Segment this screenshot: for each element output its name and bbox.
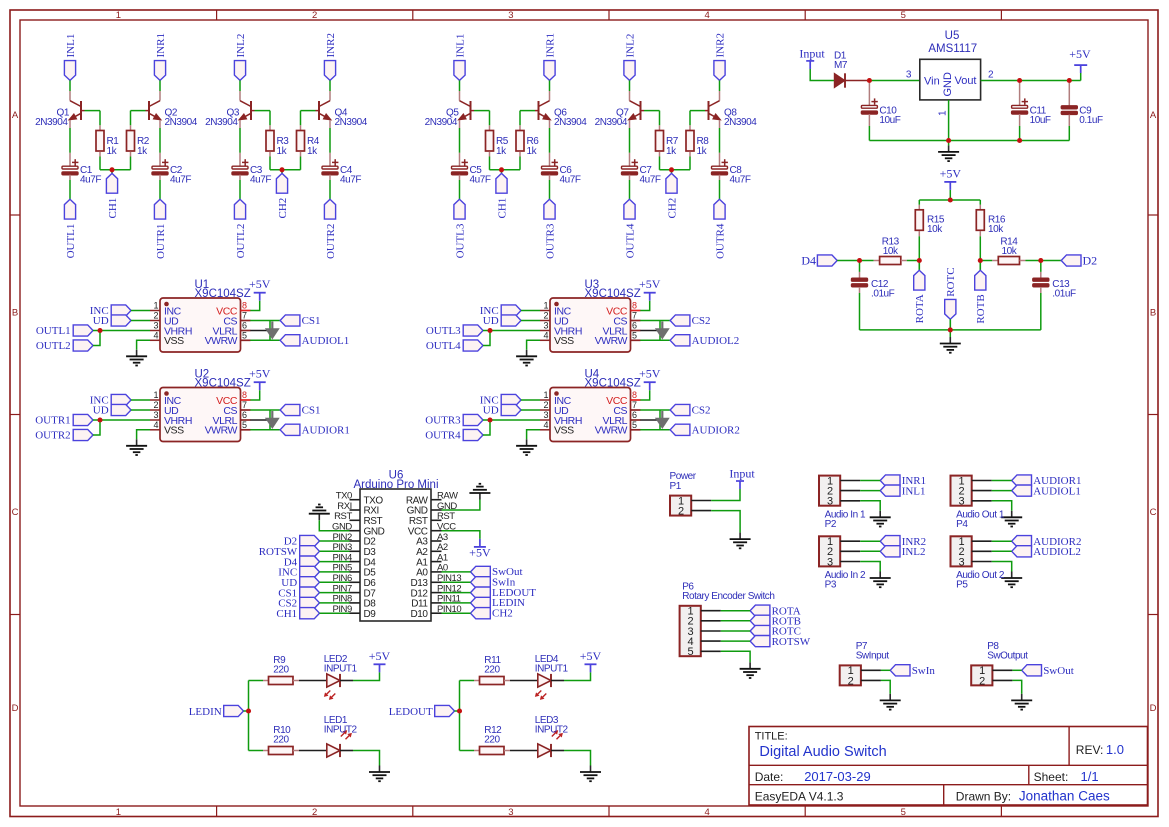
svg-text:P5: P5 [956,580,968,591]
svg-text:ROTSW: ROTSW [772,636,811,648]
wire [640,419,660,421]
svg-text:RST: RST [364,516,383,527]
wire [881,669,890,671]
wire [837,260,859,262]
ground [730,533,751,549]
wire [640,429,670,431]
ground [1001,572,1022,588]
svg-text:OUTL2: OUTL2 [36,340,71,352]
wire [131,320,150,322]
svg-text:OUTL4: OUTL4 [624,223,636,258]
wire [69,180,71,199]
svg-text:OUTL1: OUTL1 [65,224,77,259]
title block [749,727,1148,806]
svg-text:Vin: Vin [924,76,940,88]
net flag CH1 [276,608,319,620]
wire [1080,73,1082,81]
wire [490,169,521,171]
wire [521,399,540,401]
wire [474,110,490,112]
svg-text:CH2: CH2 [666,198,678,219]
svg-text:2: 2 [979,675,985,687]
wire [549,80,551,91]
wire [329,80,331,91]
svg-text:3: 3 [958,556,964,568]
svg-text:INR2: INR2 [714,33,726,57]
svg-text:3: 3 [906,70,912,81]
svg-text:6: 6 [242,321,247,331]
svg-text:+5V: +5V [940,166,962,180]
svg-text:10k: 10k [1002,246,1018,257]
svg-text:7: 7 [242,400,247,410]
net flag INL1 [880,485,925,497]
net flag D2 [284,535,320,547]
net flag ROTA [750,605,801,617]
net flag OUTL2 [234,199,246,258]
diode D1 [834,51,869,88]
svg-text:OUTR3: OUTR3 [544,223,556,259]
svg-text:1k: 1k [107,146,118,157]
ground [880,694,901,710]
net flag UD [483,404,521,416]
svg-text:Input: Input [729,467,755,481]
wire [137,340,150,350]
svg-text:OUTR1: OUTR1 [155,224,167,259]
net flag CS2 [278,597,319,609]
svg-text:INPUT2: INPUT2 [324,724,358,735]
transistor Q2 [146,91,198,128]
svg-text:4: 4 [543,420,548,430]
ground [940,337,961,353]
svg-text:ROTA: ROTA [914,294,926,323]
svg-text:D5: D5 [364,568,377,579]
svg-text:RST: RST [409,516,428,527]
svg-text:1: 1 [153,301,158,311]
wire [981,80,1081,82]
wire [689,157,691,170]
svg-text:REV:: REV: [1076,743,1104,757]
resistor R10 [263,725,299,755]
svg-text:2: 2 [153,400,158,410]
net flag INL1 [454,34,466,81]
wire [460,750,475,752]
wire [719,80,721,91]
svg-text:4: 4 [704,807,709,818]
svg-text:+5V: +5V [580,649,602,663]
net flag INR1 [880,475,926,487]
svg-text:1: 1 [543,301,548,311]
capacitor C11 [1012,83,1051,126]
net flag UD [93,315,131,327]
net flag INR2 [880,536,926,548]
wire [442,500,480,511]
wire [860,490,880,492]
svg-text:D10: D10 [411,609,429,620]
svg-text:6: 6 [632,410,637,420]
wire [340,680,353,682]
svg-text:AUDIOL2: AUDIOL2 [692,335,740,347]
wire [660,169,691,171]
svg-text:INL1: INL1 [454,34,466,58]
wire [992,501,1012,511]
svg-text:UD: UD [483,405,499,417]
svg-text:1: 1 [153,390,158,400]
svg-text:D9: D9 [364,609,377,620]
junction [1017,78,1022,83]
svg-text:LEDOUT: LEDOUT [389,706,433,718]
svg-text:+5V: +5V [249,277,271,291]
capacitor C13 [1033,261,1076,300]
resistor R7 [656,125,679,157]
svg-text:OUTR1: OUTR1 [35,415,70,427]
svg-text:2N3904: 2N3904 [425,117,458,128]
svg-text:10k: 10k [883,246,899,257]
transistor Q4 [316,91,368,128]
svg-text:P3: P3 [825,580,837,591]
wire [640,339,670,341]
wire [250,419,270,421]
svg-text:INL2: INL2 [235,34,247,58]
svg-text:2N3904: 2N3904 [335,117,368,128]
svg-text:OUTL1: OUTL1 [36,325,71,337]
svg-text:X9C104SZ: X9C104SZ [195,288,251,300]
wire [868,126,870,141]
svg-text:220: 220 [273,664,289,675]
net flag LEDOUT [389,705,455,718]
wire [521,320,540,322]
wire [442,571,471,573]
svg-text:CS1: CS1 [302,315,321,327]
svg-text:CH2: CH2 [277,198,289,219]
net flag INC [480,394,521,406]
net flag OUTR2 [324,199,336,259]
svg-text:A: A [1150,110,1157,121]
net flag UD [483,315,521,327]
wire [459,180,461,199]
svg-text:D: D [12,703,19,714]
capacitor C2 [152,153,191,186]
wire [131,399,150,401]
net flag CH2 [471,607,513,619]
junction [109,167,114,172]
wire [250,409,280,411]
svg-text:7: 7 [632,311,637,321]
wire [629,80,631,91]
resistor R8 [686,125,709,157]
net flag UD [281,577,319,589]
net flag OUTR3 [544,199,556,259]
ground [126,439,147,455]
connector P2 [819,475,860,507]
wire [719,128,721,153]
junction [1017,138,1022,143]
wire [159,80,161,91]
resistor R16 [976,200,1006,236]
wire [721,620,750,622]
svg-text:SwOutput: SwOutput [987,651,1028,662]
connector P3 [819,536,860,568]
ground [309,505,330,521]
resistor R15 [915,200,945,236]
wire [131,110,146,112]
svg-text:4u7F: 4u7F [560,174,581,185]
svg-text:3: 3 [508,807,513,818]
wire [860,480,880,482]
junction [279,167,284,172]
svg-text:+5V: +5V [639,367,661,381]
power +5V [580,649,602,673]
junction [978,258,983,263]
wire [869,80,919,82]
net flag INR2 [324,33,336,80]
transistor Q5 [425,91,474,128]
wire [510,750,538,752]
svg-text:UD: UD [93,315,109,327]
svg-text:OUTL3: OUTL3 [426,325,461,337]
IC U5 [920,30,981,100]
transistor Q7 [595,91,644,128]
wire [93,419,150,421]
svg-text:4u7F: 4u7F [640,174,661,185]
wire [239,180,241,199]
wire [992,562,1012,572]
svg-text:4: 4 [704,10,709,21]
svg-text:8: 8 [242,301,247,311]
wire [131,310,150,312]
svg-text:AUDIOR1: AUDIOR1 [302,425,350,437]
svg-text:5: 5 [242,420,247,430]
wire [489,157,491,170]
signal ground [656,322,669,339]
junction [487,417,492,422]
svg-text:1k: 1k [666,146,677,157]
net flag UD [93,404,131,416]
svg-text:1: 1 [543,390,548,400]
wire [329,128,331,153]
svg-text:8: 8 [242,390,247,400]
net flag AUDIOR1 [280,424,350,436]
ground [369,766,390,782]
wire [239,80,241,91]
svg-text:.01uF: .01uF [1052,289,1076,300]
wire [881,680,890,694]
svg-text:AUDIOL1: AUDIOL1 [1033,485,1081,497]
wire bottom rail [860,329,1041,331]
net flag ROTA [914,261,926,324]
wire [520,110,535,112]
svg-text:0.1uF: 0.1uF [1079,115,1103,126]
net flag CS2 [670,404,710,416]
IC U2 [150,369,251,442]
net flag AUDIOR2 [670,424,740,436]
junction [917,258,922,263]
wire [564,672,591,680]
wire [721,651,750,662]
wire [907,260,920,262]
net flag SwOut [471,566,523,578]
ground [1011,694,1032,710]
wire [640,330,660,332]
net flag OUTL2 [36,340,93,352]
wire [711,511,740,533]
svg-text:INPUT2: INPUT2 [535,724,569,735]
wire [483,331,490,346]
svg-text:2N3904: 2N3904 [35,117,68,128]
wire [659,157,661,170]
svg-text:10k: 10k [988,224,1004,235]
svg-text:B: B [1150,307,1156,318]
svg-text:2: 2 [678,506,684,518]
wire [721,640,750,642]
wire [300,157,302,170]
capacitor C3 [232,153,271,186]
svg-text:INR1: INR1 [544,33,556,57]
capacitor C6 [542,153,581,186]
wire [340,750,353,752]
power +5V [249,277,271,301]
wire [130,157,132,170]
svg-text:CH2: CH2 [492,607,513,619]
ground [516,350,537,366]
wire [1012,669,1021,671]
ground [126,350,147,366]
svg-text:4u7F: 4u7F [730,174,751,185]
ground [516,439,537,455]
wire [99,157,101,170]
resistor R1 [96,125,119,157]
svg-text:3: 3 [827,496,833,508]
svg-text:5: 5 [901,807,906,818]
svg-text:A: A [12,110,19,121]
svg-text:INL1: INL1 [65,34,77,58]
capacitor C7 [622,153,661,186]
svg-text:INL2: INL2 [902,546,926,558]
svg-text:GND: GND [942,72,954,97]
net flag CS2 [670,315,710,327]
wire [250,429,280,431]
svg-text:7: 7 [242,311,247,321]
svg-text:P1: P1 [670,481,682,492]
svg-text:10k: 10k [927,224,943,235]
svg-text:CS2: CS2 [692,405,711,417]
svg-text:ROTC: ROTC [945,267,957,296]
svg-text:1k: 1k [496,146,507,157]
transistor Q1 [35,91,84,128]
svg-text:INL2: INL2 [624,34,636,58]
wire [249,680,264,682]
power +5V [1069,47,1091,73]
junction [499,167,504,172]
wire [100,169,131,171]
wire [442,612,471,614]
net flag INR1 [544,33,556,80]
svg-text:7: 7 [632,400,637,410]
junction [457,708,462,713]
svg-text:RST: RST [437,511,455,522]
wire [255,110,271,112]
svg-text:Input: Input [799,47,825,61]
wire [353,751,380,766]
svg-text:X9C104SZ: X9C104SZ [585,378,641,390]
net flag LEDIN [471,597,526,609]
net flag AUDIOL1 [1012,485,1081,497]
resistor R13 [860,237,907,265]
svg-text:10uF: 10uF [879,115,900,126]
svg-text:5: 5 [632,331,637,341]
svg-text:X9C104SZ: X9C104SZ [585,288,641,300]
svg-text:+5V: +5V [249,367,271,381]
svg-text:UD: UD [483,315,499,327]
wire [131,409,150,411]
svg-text:2N3904: 2N3904 [595,117,628,128]
wire [992,550,1012,552]
svg-text:VWRW: VWRW [205,335,238,347]
wire [320,581,350,583]
svg-text:Arduino Pro Mini: Arduino Pro Mini [353,479,438,491]
wire [320,602,350,604]
resistor R3 [266,125,289,157]
wire [460,680,475,682]
net flag SwIn [471,577,516,589]
net flag AUDIOR1 [1012,475,1082,487]
wire GND pin 1 [948,100,950,141]
svg-text:6: 6 [242,410,247,420]
net flag INR2 [714,33,726,80]
wire [483,330,540,332]
resistor R6 [516,125,539,157]
junction [1067,78,1072,83]
svg-text:INPUT1: INPUT1 [324,663,358,674]
wire [250,390,259,400]
net flag ROTB [975,261,987,324]
wire [527,340,540,350]
svg-text:OUTR2: OUTR2 [325,224,337,259]
wire [459,128,461,153]
junction [1038,258,1043,263]
power flag Input [729,467,755,490]
svg-text:INR2: INR2 [325,33,337,57]
net flag D4 [284,556,320,568]
wire [629,128,631,153]
net flag INC [90,305,131,317]
net flag ROTSW [259,546,320,558]
wire [69,128,71,153]
svg-text:220: 220 [273,734,289,745]
LED LED1 [324,715,358,757]
net flag OUTL3 [426,325,483,337]
wire [992,480,1012,482]
wire [483,420,490,435]
wire [690,110,705,112]
IC U4 [540,369,641,442]
wire [320,612,350,614]
wire [69,80,71,91]
svg-text:ROTB: ROTB [975,294,987,323]
signal ground [266,411,279,428]
power +5V [369,649,391,673]
svg-text:4u7F: 4u7F [340,174,361,185]
wire [159,128,161,153]
LED LED4 [535,654,569,700]
svg-text:AMS1117: AMS1117 [928,43,977,55]
wire [483,419,540,421]
net flag CH1 [496,170,508,219]
ground [469,484,490,500]
svg-text:1k: 1k [137,146,148,157]
wire bottom rail [869,140,1069,142]
wire [269,410,271,430]
wire [329,180,331,199]
